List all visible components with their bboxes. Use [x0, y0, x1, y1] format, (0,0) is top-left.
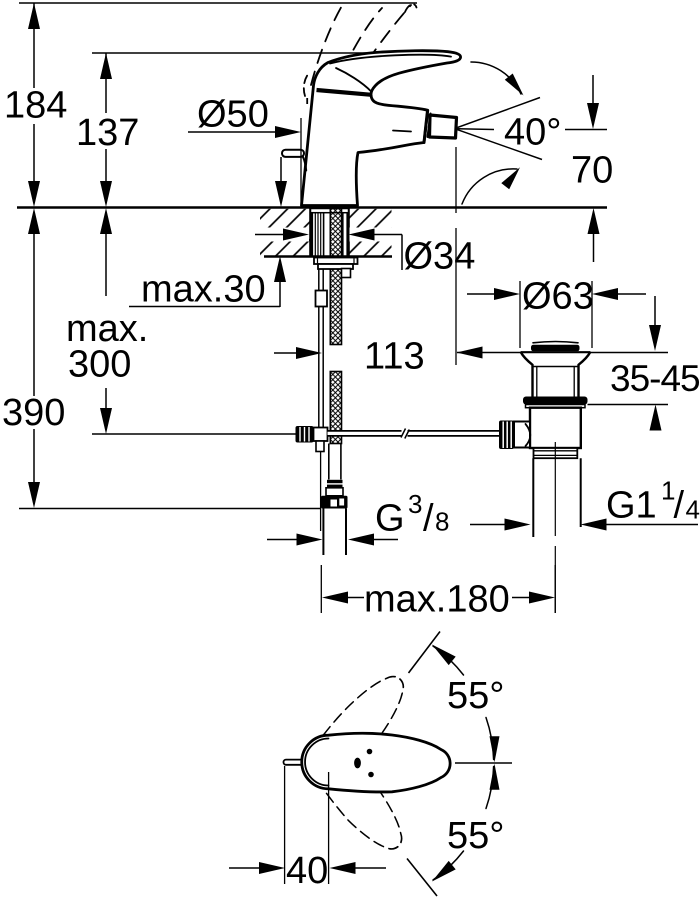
390 bottom reference line [19, 508, 321, 510]
max.300 bottom reference line (pop-up rod level) [92, 433, 296, 435]
dashed handle rotated down 55 deg [296, 730, 416, 861]
dashed raised-handle stroke A [311, 4, 343, 85]
mounting stud right [342, 213, 344, 258]
55 deg lower arc [486, 767, 494, 809]
svg-text:55°: 55° [447, 815, 504, 857]
svg-text:max.180: max.180 [364, 579, 510, 621]
70 top reference line [565, 129, 607, 131]
shank top plate in counter hole [311, 209, 349, 213]
valve side port [514, 422, 530, 448]
handle top view inner cap arc [305, 739, 328, 786]
hose top fitting step [342, 269, 351, 278]
dashed raised-handle tip hook [405, 4, 417, 12]
dashed raised-handle stroke C [355, 5, 411, 80]
counter hatch left block [260, 209, 311, 256]
Ø50 extension line [300, 118, 302, 206]
dimension 40 extension lines [284, 766, 286, 884]
valve plug cap [531, 345, 580, 352]
valve funnel top rim [521, 351, 590, 353]
counter top line [17, 206, 607, 209]
dimension line Ø50 [188, 131, 277, 133]
handle top view outline [302, 733, 450, 792]
reference line at valve flange bottom [588, 404, 669, 406]
valve flange ring [523, 397, 588, 405]
dimension line diameter 63 [467, 293, 495, 295]
valve side knob knurled [499, 421, 514, 450]
spout inner line [393, 131, 411, 132]
dimension 113 left arrow [274, 352, 297, 354]
handle-body junction thick line [317, 90, 372, 95]
mounting nut [314, 258, 358, 265]
rod tee block [314, 428, 328, 442]
extension line top (handle raised tip level) [19, 2, 417, 4]
pop-up rod end (top view) [284, 760, 307, 765]
hose plain section [328, 444, 330, 480]
mounting stud left tube [311, 213, 313, 258]
40 degree lower arc [462, 169, 517, 204]
base bottom edge [301, 204, 358, 206]
dimension 137 vertical line [105, 53, 107, 113]
pop-up rod coupler [316, 291, 328, 307]
spray fan lower line [458, 130, 543, 160]
svg-text:8: 8 [435, 507, 449, 537]
dimension max.30 lower arrow and leader [279, 280, 281, 307]
G3/8 nut [321, 496, 348, 509]
G3/8 tube [322, 509, 324, 556]
dimension 35-45 lower arrow [650, 405, 662, 431]
dimension 184 vertical line [33, 3, 35, 88]
hose end fitting [327, 480, 343, 483]
55 deg upper reference line [409, 632, 441, 674]
dimension 35-45 upper arrow [654, 296, 656, 326]
svg-text:70: 70 [571, 150, 613, 192]
rod stub below tee [316, 441, 324, 452]
113 right extension line (spout axis) [455, 147, 457, 213]
valve coupling nut [534, 448, 578, 458]
aerator [430, 115, 457, 138]
handle inner top line [330, 55, 451, 64]
svg-text:390: 390 [2, 392, 65, 434]
dashed handle rotated up 55 deg [297, 664, 417, 795]
dimension 34 left arrow [255, 234, 284, 236]
55 deg lower reference line [407, 859, 437, 897]
pop-up rod (front view) [282, 150, 304, 157]
dimension G1 1/4 arrows [470, 524, 505, 526]
rod tee knurled knob [296, 426, 314, 443]
svg-text:/: / [674, 485, 685, 527]
svg-text:35-45: 35-45 [610, 358, 700, 399]
svg-text:/: / [423, 498, 434, 540]
valve body [530, 408, 581, 448]
svg-text:Ø50: Ø50 [197, 94, 269, 136]
40 degree upper arc [471, 62, 521, 94]
svg-text:G: G [375, 498, 405, 540]
handle centerline right [455, 762, 512, 764]
dimension 40 arrows [229, 867, 259, 869]
dashed raised-handle front edge [304, 73, 309, 96]
counter bottom line [264, 255, 392, 258]
braided supply hose lower segment [330, 372, 341, 444]
svg-text:Ø63: Ø63 [522, 276, 594, 318]
svg-text:3: 3 [408, 489, 422, 519]
spout end face [424, 111, 428, 143]
handle inner front line [336, 68, 371, 92]
counter hole right edge [347, 208, 350, 258]
counter hatch right block [349, 209, 392, 256]
svg-text:184: 184 [4, 85, 67, 127]
svg-text:300: 300 [68, 344, 131, 386]
max.180 extension lines [320, 452, 322, 531]
55 deg upper arc [433, 646, 464, 675]
handle top view detail dots [367, 749, 373, 755]
svg-text:G1: G1 [606, 485, 657, 527]
dimension 70 lower arrow [593, 232, 595, 262]
svg-text:40: 40 [286, 850, 328, 892]
dimension 390 vertical line [33, 231, 35, 396]
faucet body and lever handle outline [302, 51, 461, 206]
diameter 63 extension lines [519, 281, 521, 348]
dimension 70 upper arrow [592, 75, 594, 104]
spray fan middle line [458, 128, 495, 131]
dimension max.300 vertical line [105, 231, 107, 296]
dimension 113 right arrow [457, 347, 483, 359]
reference line at valve flange top [457, 352, 521, 354]
svg-text:max.30: max.30 [141, 269, 266, 311]
spray fan upper line [458, 98, 541, 128]
braided supply hose upper segment [330, 209, 341, 345]
hatch white gap for dimension 34 line [250, 228, 309, 242]
valve funnel body [521, 353, 533, 397]
svg-text:113: 113 [364, 336, 425, 378]
svg-text:4: 4 [686, 495, 700, 525]
svg-text:40°: 40° [504, 112, 561, 154]
svg-text:55°: 55° [447, 675, 504, 717]
svg-text:Ø34: Ø34 [404, 236, 476, 278]
dimension max.180 line and arrows [322, 592, 348, 604]
valve tailpipe [532, 458, 534, 537]
horizontal linkage rod [328, 431, 500, 436]
extension line handle top level [92, 52, 448, 54]
dimension max.30 upper arrow [280, 157, 282, 183]
svg-text:137: 137 [76, 112, 139, 154]
dimension G3/8 arrows [267, 539, 297, 541]
pop-up rod lower part [318, 307, 320, 428]
dimension 34 right arrow and leader [349, 229, 375, 241]
dashed raised-handle stroke B [333, 8, 382, 91]
counter hole left edge [309, 208, 312, 258]
valve collar [526, 405, 586, 408]
pop-up rod below counter [318, 269, 320, 291]
rod break marks [402, 429, 408, 439]
valve centerline [554, 442, 556, 536]
